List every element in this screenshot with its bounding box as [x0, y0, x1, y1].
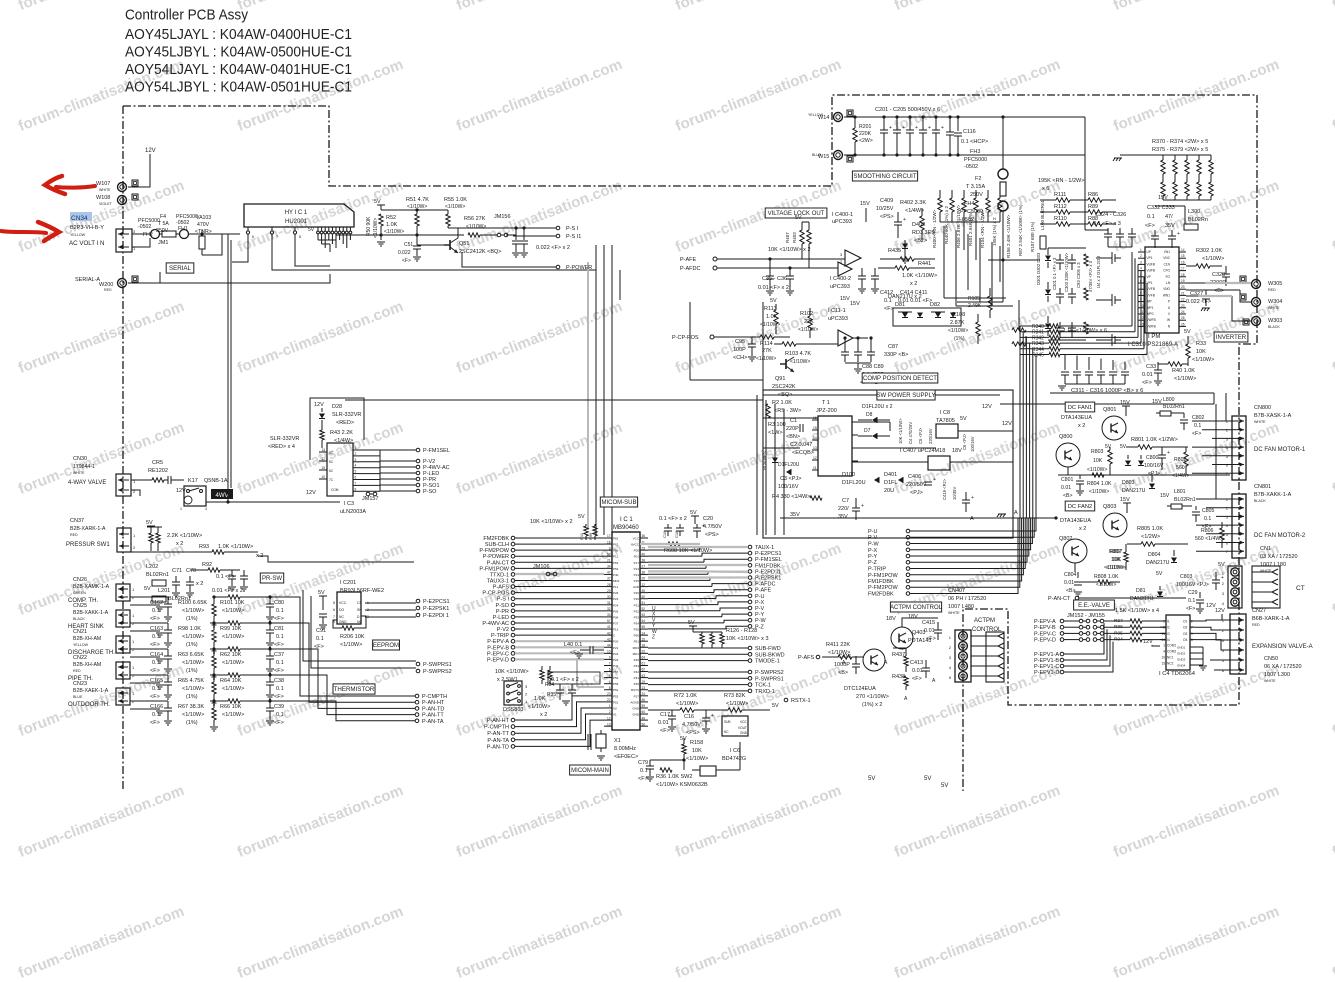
svg-text:15V: 15V [860, 201, 870, 207]
svg-text:32: 32 [607, 607, 611, 611]
svg-text:35V: 35V [1165, 223, 1175, 229]
wire U V W outputs gray [1205, 282, 1251, 284]
region box SW POWER SUPPLY [345, 399, 763, 401]
svg-text:P61: P61 [634, 640, 640, 644]
svg-text:I C8: I C8 [940, 410, 950, 416]
svg-text:P63: P63 [613, 537, 619, 541]
svg-text:R51 4.7K: R51 4.7K [406, 197, 429, 203]
svg-text:BLACK: BLACK [1268, 325, 1280, 329]
transistor Q401 DTC124EUA [863, 649, 885, 671]
svg-text:R104 <RN - 1/2W>: R104 <RN - 1/2W> [980, 209, 985, 248]
svg-text:R86: R86 [1088, 192, 1098, 198]
svg-text:CN23: CN23 [73, 681, 87, 687]
svg-text:12V: 12V [145, 148, 156, 154]
svg-text:Q91: Q91 [775, 376, 785, 382]
wire left low fanout [511, 718, 515, 722]
svg-text:GREEN: GREEN [73, 591, 86, 595]
svg-text:WHITE: WHITE [73, 471, 85, 475]
svg-text:R375 - R379 <2W> x 5: R375 - R379 <2W> x 5 [1152, 147, 1208, 153]
boxed label VILTAGE LOCK OUT [765, 208, 827, 218]
svg-text:R73 82K: R73 82K [724, 693, 746, 699]
CT bracket [1252, 566, 1280, 608]
svg-text:<1/10W>: <1/10W> [756, 356, 776, 362]
svg-text:F2: F2 [975, 176, 981, 182]
svg-text:<F>: <F> [150, 668, 160, 674]
svg-text:1: 1 [180, 507, 182, 511]
capacitor column C301-C305 [1059, 254, 1061, 260]
svg-text:10K <1/10W> x 3: 10K <1/10W> x 3 [726, 636, 769, 642]
svg-text:14: 14 [642, 631, 646, 635]
svg-text:P22: P22 [613, 652, 619, 656]
svg-text:P-AN-TD: P-AN-TD [422, 706, 444, 712]
svg-text:P30: P30 [634, 597, 640, 601]
svg-text:P44: P44 [613, 664, 619, 668]
svg-text:P-W: P-W [755, 618, 767, 624]
svg-text:FM1FDBK: FM1FDBK [755, 563, 781, 569]
wire P-U fan column [906, 529, 910, 533]
svg-text:C17: C17 [660, 712, 670, 718]
svg-text:37: 37 [607, 577, 611, 581]
svg-text:27: 27 [642, 565, 646, 569]
svg-text:DO: DO [339, 608, 344, 612]
svg-text:6: 6 [333, 608, 335, 612]
svg-text:WHITE: WHITE [948, 611, 960, 615]
wire q51 to micom columns [619, 270, 621, 300]
svg-text:11: 11 [1162, 632, 1166, 636]
svg-text:4: 4 [1140, 267, 1142, 271]
svg-text:8: 8 [333, 601, 335, 605]
svg-text:R206 10K: R206 10K [340, 634, 365, 640]
svg-text:5V: 5V [688, 620, 695, 626]
capacitor bank C201-C205 [883, 118, 885, 130]
svg-text:<PS>: <PS> [686, 730, 700, 736]
svg-text:0.1 <F> x 3: 0.1 <F> x 3 [1093, 221, 1121, 227]
svg-text:X1: X1 [614, 738, 621, 744]
svg-text:VCC: VCC [339, 601, 347, 605]
svg-text:P-AN-TD: P-AN-TD [487, 744, 509, 750]
wire fh4 to swps [1002, 260, 1004, 302]
svg-text:0.1: 0.1 [276, 660, 284, 666]
svg-text:P23: P23 [613, 658, 619, 662]
svg-text:W305: W305 [1268, 281, 1282, 287]
svg-text:220/16V: 220/16V [928, 428, 933, 444]
svg-text:1007 L180: 1007 L180 [1260, 562, 1286, 568]
svg-text:23: 23 [1181, 304, 1185, 308]
svg-text:0.01 <F> x 2: 0.01 <F> x 2 [758, 285, 789, 291]
svg-text:1: 1 [133, 533, 136, 538]
svg-text:D81: D81 [895, 302, 905, 308]
svg-text:<1/10W> KSM0632B: <1/10W> KSM0632B [656, 782, 708, 788]
svg-text:0.1: 0.1 [1194, 423, 1201, 429]
svg-text:R101 10K: R101 10K [220, 600, 245, 606]
svg-text:P-EPV-D: P-EPV-D [487, 657, 509, 663]
wire IPM outputs to connectors [1186, 282, 1251, 284]
pin P-S I [556, 226, 560, 230]
wire AC line [132, 233, 150, 235]
svg-text:<1/10W>: <1/10W> [686, 756, 708, 762]
svg-text:10K <1/10W> x 2: 10K <1/10W> x 2 [768, 247, 811, 253]
svg-text:R87 2.94K <1/10W> (1%): R87 2.94K <1/10W> (1%) [1018, 204, 1023, 256]
svg-text:C81: C81 [274, 626, 284, 632]
svg-text:7C: 7C [329, 478, 334, 482]
svg-text:P-S I1: P-S I1 [566, 234, 581, 240]
svg-text:10K: 10K [1196, 349, 1206, 355]
svg-text:CN26: CN26 [73, 577, 87, 583]
svg-text:T 3.15A: T 3.15A [966, 184, 985, 190]
svg-text:R62 10K: R62 10K [220, 652, 242, 658]
svg-text:<1/10W>: <1/10W> [676, 701, 698, 707]
svg-text:P-EPV-C: P-EPV-C [487, 651, 509, 657]
svg-text:P34: P34 [634, 622, 640, 626]
svg-text:C419 <PJ>: C419 <PJ> [942, 478, 947, 500]
svg-text:23: 23 [607, 692, 611, 696]
svg-text:R65 4.75K: R65 4.75K [178, 678, 204, 684]
svg-text:(1%): (1%) [954, 336, 965, 342]
svg-text:BLUE: BLUE [73, 695, 83, 699]
svg-text:P-E2PD I1: P-E2PD I1 [755, 569, 781, 575]
svg-text:R114: R114 [760, 341, 773, 347]
svg-text:<F>: <F> [884, 306, 894, 312]
svg-text:R66 10K: R66 10K [220, 704, 242, 710]
svg-text:4C: 4C [329, 451, 334, 455]
diode pair symbols [917, 313, 923, 318]
svg-text:P66: P66 [613, 549, 619, 553]
svg-text:N: N [1168, 324, 1171, 328]
svg-text:uPC393: uPC393 [830, 284, 850, 290]
svg-text:O1: O1 [1183, 620, 1187, 624]
svg-text:2: 2 [1140, 254, 1142, 258]
svg-text:R64 10K: R64 10K [220, 678, 242, 684]
svg-text:16: 16 [1181, 260, 1185, 264]
svg-text:15: 15 [1181, 254, 1185, 258]
svg-text:4.7/50V: 4.7/50V [682, 722, 701, 728]
svg-text:R43 2.2K: R43 2.2K [330, 430, 353, 436]
resistor R87 R88 small [1012, 328, 1026, 332]
svg-text:R97: R97 [1114, 618, 1123, 624]
svg-text:270 <1/10W>: 270 <1/10W> [856, 694, 889, 700]
svg-text:+: + [1177, 231, 1180, 237]
svg-text:SERIAL-A: SERIAL-A [75, 277, 100, 283]
svg-text:R403: R403 [792, 232, 797, 243]
svg-text:B2B-XARK-1-A: B2B-XARK-1-A [70, 526, 106, 532]
svg-text:56: 56 [642, 722, 646, 726]
svg-text:P-TRIP: P-TRIP [491, 633, 509, 639]
svg-text:0.1: 0.1 [276, 686, 284, 692]
svg-text:P-E2PCS1: P-E2PCS1 [755, 551, 782, 557]
svg-text:42: 42 [607, 631, 611, 635]
svg-text:R94: R94 [1114, 637, 1123, 643]
svg-text:<1/10W>: <1/10W> [182, 660, 204, 666]
crystal X1 8.00MHz [596, 734, 606, 748]
svg-text:44: 44 [607, 644, 611, 648]
svg-text:CN800: CN800 [1254, 405, 1271, 411]
svg-text:D7: D7 [864, 428, 871, 434]
svg-text:DAN217U x 2: DAN217U x 2 [888, 294, 922, 300]
svg-text:R807: R807 [1109, 549, 1122, 555]
svg-text:4: 4 [1163, 650, 1165, 654]
svg-text:12: 12 [813, 456, 817, 460]
svg-text:52: 52 [642, 607, 646, 611]
svg-text:R126 - R128: R126 - R128 [726, 628, 757, 634]
svg-text:<1/10W>: <1/10W> [222, 686, 244, 692]
svg-text:D803: D803 [1122, 480, 1135, 486]
svg-text:P-EPV-A: P-EPV-A [1034, 619, 1056, 625]
svg-text:5: 5 [355, 470, 357, 474]
IC310 IPM box [1145, 247, 1179, 333]
boxed label MICOM-SUB [600, 497, 637, 507]
svg-text:P-FM1SEL: P-FM1SEL [423, 448, 450, 454]
svg-text:DSS803: DSS803 [503, 707, 524, 713]
svg-text:R102: R102 [800, 311, 813, 317]
svg-text:<1/10W>: <1/10W> [340, 642, 362, 648]
svg-text:AOY54LJAYL : K04AW-0401HUE-C1: AOY54LJAYL : K04AW-0401HUE-C1 [125, 62, 352, 78]
svg-text:5V: 5V [1120, 444, 1127, 450]
svg-text:A: A [884, 660, 888, 666]
svg-text:uPC393: uPC393 [832, 219, 852, 225]
svg-text:12V: 12V [1215, 608, 1225, 614]
svg-text:R107 680 (1%): R107 680 (1%) [1030, 221, 1035, 252]
svg-text:0.1 <HCP>: 0.1 <HCP> [961, 139, 988, 145]
svg-text:195K <RN - 1/2W>: 195K <RN - 1/2W> [1038, 178, 1084, 184]
svg-text:10/25V: 10/25V [876, 206, 894, 212]
svg-text:11: 11 [813, 466, 817, 470]
svg-text:P-CP-POS: P-CP-POS [482, 591, 509, 597]
svg-text:8: 8 [1191, 638, 1193, 642]
svg-text:R808 1.0K: R808 1.0K [1094, 574, 1119, 580]
svg-text:61: 61 [642, 662, 646, 666]
svg-text:C16: C16 [684, 714, 694, 720]
svg-text:+: + [902, 125, 905, 131]
svg-text:TCK-1: TCK-1 [755, 683, 771, 689]
resistor column R400 group [939, 190, 941, 198]
svg-text:BL02Rn1: BL02Rn1 [1174, 497, 1196, 503]
svg-text:41: 41 [607, 625, 611, 629]
svg-text:4.7/50V: 4.7/50V [703, 524, 722, 530]
svg-text:A: A [932, 678, 936, 684]
svg-text:L800: L800 [1163, 397, 1175, 403]
svg-text:<1/10W>: <1/10W> [1096, 582, 1116, 588]
svg-text:AOY45LJBYL : K04AW-0500HUE-C1: AOY45LJBYL : K04AW-0500HUE-C1 [125, 45, 352, 61]
svg-text:3: 3 [525, 684, 528, 689]
svg-text:P12: P12 [613, 555, 619, 559]
pin RSTX-1 [784, 698, 788, 702]
svg-text:P01: P01 [634, 555, 640, 559]
svg-text:R40 1.0K: R40 1.0K [1172, 368, 1195, 374]
connector CT circles [1228, 566, 1242, 608]
svg-text:30: 30 [607, 595, 611, 599]
capacitor pr caps [231, 570, 233, 576]
svg-text:R112: R112 [1054, 204, 1067, 210]
svg-text:38: 38 [642, 571, 646, 575]
svg-text:25: 25 [642, 546, 646, 550]
svg-text:3: 3 [840, 252, 843, 257]
svg-text:V: V [1168, 312, 1171, 316]
svg-text:C805: C805 [1202, 508, 1215, 514]
svg-text:CN37: CN37 [70, 518, 84, 524]
svg-text:15: 15 [321, 466, 325, 470]
svg-text:D1FL: D1FL [884, 480, 897, 486]
svg-text:P-AFE: P-AFE [680, 257, 697, 263]
svg-text:<F>: <F> [274, 642, 284, 648]
svg-text:B2B-XAMK-1-A: B2B-XAMK-1-A [73, 584, 110, 590]
svg-text:5V: 5V [146, 520, 153, 526]
svg-text:HY I C 1: HY I C 1 [285, 210, 308, 216]
svg-text:18V: 18V [952, 448, 962, 454]
svg-text:<F>: <F> [912, 676, 922, 682]
svg-text:P45: P45 [634, 682, 640, 686]
svg-text:P62: P62 [613, 543, 619, 547]
svg-text:TA7805: TA7805 [936, 418, 955, 424]
PCB outline left border [122, 106, 124, 791]
svg-text:W303: W303 [1268, 318, 1282, 324]
svg-text:P-AN-HT: P-AN-HT [487, 718, 510, 724]
svg-text:0.1: 0.1 [276, 712, 284, 718]
svg-text:C93 C305 x 3: C93 C305 x 3 [1076, 262, 1081, 288]
svg-text:TRXD-1: TRXD-1 [755, 689, 775, 695]
svg-text:C800: C800 [1146, 455, 1159, 461]
svg-text:FO: FO [1166, 275, 1171, 279]
svg-text:A: A [1014, 510, 1018, 516]
svg-text:GND: GND [740, 731, 748, 735]
svg-text:YELLOW: YELLOW [70, 233, 86, 237]
svg-text:10K: 10K [1111, 557, 1121, 563]
svg-text:35V: 35V [838, 514, 848, 520]
resistor array R370-R379 [1162, 155, 1164, 160]
svg-text:0.01: 0.01 [1061, 485, 1071, 491]
svg-text:P-AN-CT: P-AN-CT [487, 560, 510, 566]
svg-text:P-TRIP: P-TRIP [868, 567, 886, 573]
wire relay to bus [206, 501, 340, 503]
svg-text:P-X: P-X [868, 548, 878, 554]
svg-text:GND: GND [632, 707, 640, 711]
wire micom left fanout [511, 536, 515, 540]
svg-text:CN21: CN21 [73, 629, 87, 635]
svg-text:179844-1: 179844-1 [73, 464, 95, 470]
svg-text:49: 49 [642, 716, 646, 720]
svg-text:<CH>: <CH> [733, 355, 747, 361]
svg-text:CN25: CN25 [73, 603, 87, 609]
svg-text:BL02Rn: BL02Rn [1188, 217, 1208, 223]
svg-text:VCC: VCC [633, 537, 640, 541]
svg-text:COM: COM [331, 488, 339, 492]
svg-text:2: 2 [1222, 581, 1225, 586]
svg-text:0.1: 0.1 [316, 636, 324, 642]
svg-text:50: 50 [642, 595, 646, 599]
svg-text:22: 22 [607, 698, 611, 702]
switch SW2 [700, 766, 716, 776]
svg-text:DAN217U: DAN217U [1146, 560, 1170, 566]
svg-text:64: 64 [642, 656, 646, 660]
svg-text:L202: L202 [146, 564, 158, 570]
wire 5V rail [381, 209, 448, 211]
svg-text:45: 45 [642, 589, 646, 593]
svg-text:3: 3 [355, 458, 357, 462]
svg-text:P17: P17 [634, 561, 640, 565]
svg-text:VWFB: VWFB [1147, 324, 1156, 328]
boxed label THERMISTOR [333, 684, 375, 694]
diode column D301-D303 [1045, 256, 1051, 261]
svg-text:5V: 5V [144, 586, 151, 592]
svg-text:14: 14 [1161, 638, 1165, 642]
svg-text:5V: 5V [960, 416, 967, 422]
svg-text:AOY45LJAYL : K04AW-0400HUE-C1: AOY45LJAYL : K04AW-0400HUE-C1 [125, 27, 352, 43]
svg-text:AC VOLT I N: AC VOLT I N [69, 240, 105, 247]
svg-text:SUB-BKWD: SUB-BKWD [755, 652, 785, 658]
svg-text:NC2: NC2 [1167, 662, 1174, 666]
svg-text:CN801: CN801 [1254, 484, 1271, 490]
svg-text:3: 3 [1140, 260, 1142, 264]
svg-text:I C 1: I C 1 [620, 517, 633, 523]
svg-text:I C4 TD62064: I C4 TD62064 [1159, 671, 1196, 677]
svg-text:PFC5000: PFC5000 [964, 157, 987, 163]
svg-text:<B>: <B> [1214, 288, 1224, 294]
svg-text:P-E2PDI 1: P-E2PDI 1 [423, 613, 449, 619]
svg-text:RED: RED [73, 669, 81, 673]
wire column interconnect [940, 221, 1000, 223]
svg-text:15V: 15V [1120, 400, 1130, 406]
svg-text:P27: P27 [634, 694, 640, 698]
svg-text:29: 29 [607, 589, 611, 593]
svg-text:2: 2 [133, 545, 136, 550]
connector CN407 circles [955, 630, 971, 682]
svg-text:12: 12 [642, 583, 646, 587]
svg-text:<F>: <F> [402, 258, 411, 264]
svg-text:0.1: 0.1 [1147, 214, 1155, 220]
svg-text:X1: X1 [613, 713, 617, 717]
svg-text:P-V: P-V [868, 535, 878, 541]
svg-text:2: 2 [609, 710, 611, 714]
svg-text:<ECQB>: <ECQB> [792, 450, 814, 456]
svg-text:C39: C39 [274, 704, 284, 710]
svg-text:C51: C51 [404, 242, 413, 248]
wire bus down to fan column [1019, 326, 1021, 518]
svg-text:12: 12 [321, 457, 325, 461]
svg-text:<EF0EC>: <EF0EC> [614, 754, 638, 760]
svg-text:F4: F4 [160, 214, 166, 220]
svg-text:53: 53 [642, 613, 646, 617]
svg-text:C301 0.1 <F> x 3: C301 0.1 <F> x 3 [1052, 257, 1057, 290]
svg-text:R201: R201 [859, 124, 872, 130]
svg-text:P: P [1168, 300, 1170, 304]
svg-text:P-SWPRS1: P-SWPRS1 [755, 676, 784, 682]
svg-text:COMP POSITION DETECT: COMP POSITION DETECT [863, 376, 937, 382]
svg-text:P-U: P-U [868, 529, 878, 535]
svg-text:NC: NC [724, 730, 729, 734]
svg-text:2.2K <1/10W>: 2.2K <1/10W> [167, 533, 202, 539]
svg-text:K17: K17 [188, 478, 198, 484]
svg-text:P-AFS: P-AFS [798, 655, 815, 661]
svg-text:470V: 470V [197, 222, 210, 228]
svg-text:R435: R435 [888, 248, 901, 254]
svg-text:GND2: GND2 [1177, 652, 1186, 656]
svg-text:R402 3.3K: R402 3.3K [900, 200, 926, 206]
gray trace sw1 [576, 658, 578, 687]
svg-text:P-FM1POW: P-FM1POW [868, 573, 898, 579]
svg-text:C413: C413 [910, 660, 923, 666]
connector W108 [118, 196, 127, 205]
svg-text:L801: L801 [1174, 489, 1186, 495]
wire actpm q403 [902, 618, 938, 627]
svg-text:I C11-1: I C11-1 [828, 308, 846, 314]
svg-text:WHITE: WHITE [1254, 420, 1266, 424]
boxed label COMP POSITION DETECT [862, 373, 938, 383]
svg-text:D8: D8 [866, 412, 873, 418]
svg-text:<PS>: <PS> [880, 214, 894, 220]
svg-text:5V: 5V [318, 590, 325, 596]
svg-text:0.022: 0.022 [398, 250, 411, 256]
svg-text:LN: LN [1166, 281, 1171, 285]
svg-text:C88 C89: C88 C89 [862, 364, 884, 370]
